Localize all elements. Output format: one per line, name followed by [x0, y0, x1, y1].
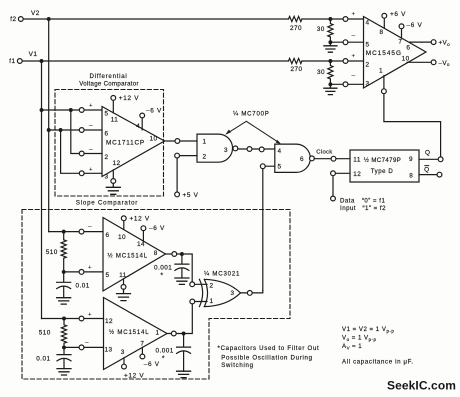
svg-text:510: 510 — [39, 329, 51, 336]
svg-text:1: 1 — [209, 298, 213, 305]
svg-text:6: 6 — [300, 156, 304, 163]
XOR gate U4 1/4 MC3021 input stubs — [195, 284, 207, 301]
connector circle on clock wire — [331, 156, 336, 161]
terminal f2 — [18, 17, 23, 22]
svg-text:9: 9 — [409, 156, 413, 163]
svg-text:MC1545G: MC1545G — [366, 50, 402, 57]
wire -6V stub pin 7 — [401, 29, 403, 38]
wire V2 to pin6 MC1514L top — [49, 231, 103, 233]
svg-text:0.001: 0.001 — [156, 347, 174, 354]
svg-text:Input: Input — [340, 205, 356, 212]
comparator U2b MC1514L bottom triangle — [104, 298, 168, 370]
connector circle on pin1 wire — [382, 89, 387, 94]
svg-text:+: + — [89, 103, 93, 109]
svg-text:¼ MC700P: ¼ MC700P — [233, 111, 269, 118]
node pin5 slope junction — [62, 270, 66, 274]
node output pin1 junction — [182, 332, 186, 336]
svg-text:Q: Q — [425, 149, 430, 156]
svg-text:Type D: Type D — [371, 168, 394, 175]
wire pin 12 to Data terminal — [333, 173, 350, 196]
svg-text:30: 30 — [317, 69, 325, 76]
connector circle pin 12 — [111, 179, 116, 184]
connector circle on output — [175, 139, 180, 144]
wire MC1711 output pin 10 — [165, 140, 198, 142]
op-amp MC1545G triangle — [364, 17, 427, 89]
svg-text:2: 2 — [209, 282, 213, 289]
svg-text:Possible Oscillation During: Possible Oscillation During — [221, 354, 312, 361]
svg-text:11: 11 — [111, 116, 119, 123]
pin circle pin6 slope — [79, 229, 84, 234]
svg-text:1: 1 — [203, 138, 207, 145]
node 30 bottom junction — [328, 82, 332, 86]
wire clock G2 out to FF pin 11 — [314, 158, 350, 160]
pin circle XOR pin1 — [190, 299, 195, 304]
resistor 30 bottom — [328, 61, 333, 84]
svg-text:All capacitance in μF.: All capacitance in μF. — [342, 359, 414, 366]
node pin5/V1 — [40, 108, 44, 112]
svg-text:“0” = f1: “0” = f1 — [362, 197, 386, 204]
svg-text:¼ MC3021: ¼ MC3021 — [204, 271, 240, 278]
svg-text:270: 270 — [290, 66, 302, 73]
svg-text:f1: f1 — [9, 58, 15, 65]
node pin6 slope junction — [62, 230, 66, 234]
svg-text:SeekIC.com: SeekIC.com — [387, 379, 456, 393]
svg-text:4: 4 — [365, 19, 369, 26]
output bubble G1 — [233, 146, 238, 151]
connector circle pin2 G1 — [175, 153, 180, 158]
terminal +5V — [175, 192, 180, 197]
svg-text:–: – — [351, 73, 355, 80]
wire +12V stub pin 10 — [123, 221, 125, 230]
svg-text:–: – — [89, 122, 93, 129]
svg-text:4: 4 — [136, 123, 140, 130]
terminal +6V — [382, 13, 387, 18]
XOR gate U4 body — [204, 279, 240, 306]
connector circles between gates — [247, 147, 252, 152]
node V1 junction — [40, 59, 44, 63]
wire pin5 MC1711 — [42, 109, 103, 111]
svg-text:0.001: 0.001 — [154, 265, 172, 272]
svg-text:V1: V1 — [29, 51, 38, 58]
pin circles MC1545G inputs — [343, 17, 348, 22]
svg-text:+: + — [352, 54, 356, 60]
wire Qbar output pin 8 — [419, 174, 437, 176]
svg-text:270: 270 — [290, 25, 302, 32]
dashed box Slope Comparator — [22, 210, 290, 380]
svg-text:12: 12 — [353, 171, 361, 178]
wire to pin5 MC1514L top — [64, 271, 103, 273]
node pin6/V2 — [47, 128, 51, 132]
svg-text:3: 3 — [365, 81, 369, 88]
terminal Qbar — [437, 172, 442, 177]
dashed box Differential Voltage Comparator — [55, 90, 164, 197]
svg-text:10: 10 — [118, 234, 126, 241]
svg-text:6: 6 — [406, 45, 410, 52]
svg-text:12: 12 — [112, 160, 120, 167]
ground below 30 top — [324, 42, 337, 52]
connector circle output pin 8 — [172, 252, 177, 257]
wire V1 rail — [22, 60, 363, 62]
svg-text:30: 30 — [317, 26, 325, 33]
wire pin 7 stub to -6V — [141, 347, 143, 354]
connector circle pin 11 — [121, 285, 126, 290]
svg-text:1: 1 — [379, 68, 383, 75]
svg-text:“1” = f2: “1” = f2 — [363, 205, 387, 212]
svg-text:11: 11 — [353, 156, 361, 163]
terminal -6V (MC1545G) — [399, 24, 404, 29]
svg-text:Switching: Switching — [221, 362, 253, 369]
svg-text:3: 3 — [104, 174, 108, 181]
svg-text:+: + — [352, 12, 356, 18]
svg-text:–: – — [89, 146, 93, 153]
wire XOR output pin 3 — [241, 290, 263, 293]
wire output +Vo pin 6 — [410, 41, 432, 43]
ground below 30 bottom — [324, 84, 337, 94]
node pin6 branch — [59, 128, 63, 132]
svg-text:+12 V: +12 V — [119, 95, 139, 102]
svg-text:11: 11 — [119, 272, 127, 279]
node pin5 branch — [69, 108, 73, 112]
wire output -Vo pin 10 — [407, 61, 431, 63]
wire -6V stub pin 14 — [142, 231, 144, 241]
flip-flop U3 MC7479P box — [350, 150, 419, 182]
node pin12 slope junction — [62, 317, 66, 321]
svg-text:3: 3 — [224, 147, 228, 154]
resistor R 510 top — [61, 232, 66, 272]
wire +12V stub pin 11 — [112, 100, 114, 113]
connector circle pin5 G2 — [260, 164, 265, 169]
terminal Q — [438, 157, 443, 162]
wire -6V stub pin 4 — [141, 118, 143, 130]
wire to pin13 MC1514L bottom — [64, 346, 104, 348]
svg-text:Voltage Comparator: Voltage Comparator — [79, 80, 139, 87]
svg-text:0.01: 0.01 — [76, 282, 90, 289]
svg-text:2: 2 — [104, 154, 108, 161]
wire V1 vertical — [41, 61, 43, 319]
svg-text:1: 1 — [155, 330, 159, 337]
NAND gate G2 (1/4 MC700P) — [275, 144, 311, 172]
svg-text:–6 V: –6 V — [146, 107, 162, 114]
wire +6V stub pin 8 — [383, 18, 385, 28]
wire pin 3 stub to +12V — [123, 358, 125, 364]
pin circles MC1711 inputs — [79, 108, 84, 113]
wire branch pin6 to pin3 — [61, 130, 102, 173]
svg-text:5: 5 — [105, 272, 109, 279]
wire output pin 8 to XOR pin2 — [166, 254, 193, 282]
svg-text:*: * — [160, 273, 163, 280]
pin circle pin5 slope — [79, 270, 84, 275]
capacitor C 0.001 bottom — [177, 334, 191, 372]
ground below C 0.01 bottom — [57, 369, 71, 375]
pin circle pin12 slope — [79, 316, 84, 321]
connector circle pin12 corner — [331, 171, 336, 176]
wire pin 12 stub down — [112, 170, 114, 179]
svg-text:*Capacitors Used to Filter Out: *Capacitors Used to Filter Out — [218, 345, 320, 352]
wire pin5 G2 from XOR — [263, 166, 275, 290]
svg-text:8: 8 — [154, 250, 158, 257]
ground below pin 12 — [106, 183, 120, 194]
terminal +12V (MC1711) — [111, 96, 116, 101]
pin circle XOR pin2 — [190, 282, 195, 287]
resistor 270 top — [289, 16, 302, 21]
svg-text:MC1711CP: MC1711CP — [106, 139, 145, 146]
wire pin 11 stub down — [123, 279, 125, 285]
capacitor C 0.001 top — [175, 254, 189, 278]
svg-text:V2: V2 — [31, 10, 40, 17]
svg-text:6: 6 — [104, 130, 108, 137]
svg-text:Slope Comparator: Slope Comparator — [76, 200, 138, 207]
wire Q output pin 9 — [419, 158, 438, 160]
terminal -6V (MC1711) — [140, 113, 145, 118]
resistor 270 bottom — [289, 58, 302, 63]
wire pin2 G1 to +5V — [177, 156, 197, 192]
svg-text:½ MC1514L: ½ MC1514L — [109, 329, 149, 336]
capacitor C 0.01 top — [57, 272, 71, 298]
svg-text:–6 V: –6 V — [407, 22, 423, 29]
wire pin 1 MC1545G down to Q — [384, 76, 441, 157]
svg-text:2: 2 — [203, 153, 207, 160]
svg-text:+5 V: +5 V — [183, 192, 199, 199]
wire pin6 MC1711 — [49, 129, 102, 131]
terminal -6V (slope bottom) — [140, 354, 145, 359]
svg-text:2: 2 — [365, 61, 369, 68]
resistor R 510 bottom — [61, 319, 66, 348]
svg-text:10: 10 — [149, 135, 157, 142]
wire G1 out to G2 in — [238, 148, 275, 150]
svg-text:7: 7 — [398, 39, 402, 46]
svg-text:Differential: Differential — [89, 73, 127, 80]
terminal -6V (slope top) — [141, 226, 146, 231]
capacitor C 0.01 bottom — [57, 347, 71, 368]
svg-text:+: + — [89, 167, 93, 173]
terminal Data input — [331, 196, 336, 201]
wire V1 to pin12 MC1514L bottom — [42, 318, 104, 320]
pin circle pin13 slope — [79, 345, 84, 350]
svg-text:3: 3 — [230, 290, 234, 297]
svg-text:–6 V: –6 V — [149, 225, 165, 232]
wire V2 vertical — [48, 19, 50, 232]
op-amp U1 MC1711CP triangle — [102, 107, 165, 177]
XOR gate U4 extra arc — [199, 279, 202, 306]
terminal +12V (slope top) — [121, 216, 126, 221]
svg-text:+: + — [88, 312, 92, 318]
svg-text:0.01: 0.01 — [36, 356, 50, 363]
resistor 30 top — [328, 19, 333, 42]
connector circle XOR output — [247, 291, 252, 296]
node 30 top bottom junction — [328, 40, 332, 44]
ground below C 0.01 top — [57, 298, 71, 304]
output bubble G2 — [310, 156, 315, 161]
node pin13 slope junction — [62, 345, 66, 349]
svg-text:–: – — [351, 33, 355, 40]
wire to pin5 MC1545G — [330, 41, 363, 43]
svg-text:f2: f2 — [10, 16, 16, 23]
wire to pin3 MC1545G — [330, 83, 363, 85]
svg-text:5: 5 — [365, 42, 369, 49]
svg-text:5: 5 — [104, 110, 108, 117]
terminal -Vo — [431, 60, 436, 65]
ground below pin 11 — [117, 289, 131, 300]
svg-text:7: 7 — [140, 341, 144, 348]
svg-text:½ MC7479P: ½ MC7479P — [364, 157, 401, 164]
connector circle output pin 1 — [171, 331, 176, 336]
overline for Qbar — [424, 165, 429, 167]
svg-text:4: 4 — [278, 148, 282, 155]
svg-text:12: 12 — [105, 318, 113, 325]
svg-text:8: 8 — [379, 29, 383, 36]
node V2 junction — [47, 17, 51, 21]
svg-text:3: 3 — [121, 349, 125, 356]
svg-text:Data: Data — [340, 197, 355, 204]
svg-text:½ MC1514L: ½ MC1514L — [108, 253, 148, 260]
terminal +Vo — [431, 40, 436, 45]
svg-text:13: 13 — [104, 346, 112, 353]
comparator U2a MC1514L top triangle — [103, 218, 166, 292]
svg-text:+: + — [88, 265, 92, 271]
svg-text:+12 V: +12 V — [124, 373, 144, 380]
ground below C 0.001 top — [175, 278, 189, 284]
callout arrows 1/4 MC700P — [228, 121, 279, 142]
svg-text:–6 V: –6 V — [144, 361, 160, 368]
ground below C 0.001 bottom — [177, 371, 191, 377]
svg-text:510: 510 — [46, 249, 58, 256]
svg-text:AV ≈ 1: AV ≈ 1 — [342, 343, 362, 350]
svg-text:14: 14 — [137, 241, 145, 248]
wire branch pin5 to pin2 — [71, 110, 102, 154]
node output pin8 junction — [180, 252, 184, 256]
svg-text:Clock: Clock — [316, 150, 332, 156]
svg-text:Q: Q — [424, 166, 429, 173]
svg-text:*: * — [162, 356, 165, 363]
terminal +12V (slope bottom) — [122, 364, 127, 369]
svg-text:10: 10 — [402, 56, 410, 63]
wire V2 rail — [23, 18, 363, 20]
svg-text:–: – — [85, 339, 89, 346]
svg-text:5: 5 — [278, 164, 282, 171]
wire output pin 1 to XOR pin1 — [167, 304, 192, 334]
svg-text:+12 V: +12 V — [130, 215, 150, 222]
terminal f1 — [17, 59, 22, 64]
svg-text:+6 V: +6 V — [390, 11, 406, 18]
svg-text:8: 8 — [409, 173, 413, 180]
svg-text:–: – — [88, 224, 92, 231]
svg-text:6: 6 — [105, 232, 109, 239]
NAND gate G1 (1/4 MC700P) — [197, 134, 233, 162]
